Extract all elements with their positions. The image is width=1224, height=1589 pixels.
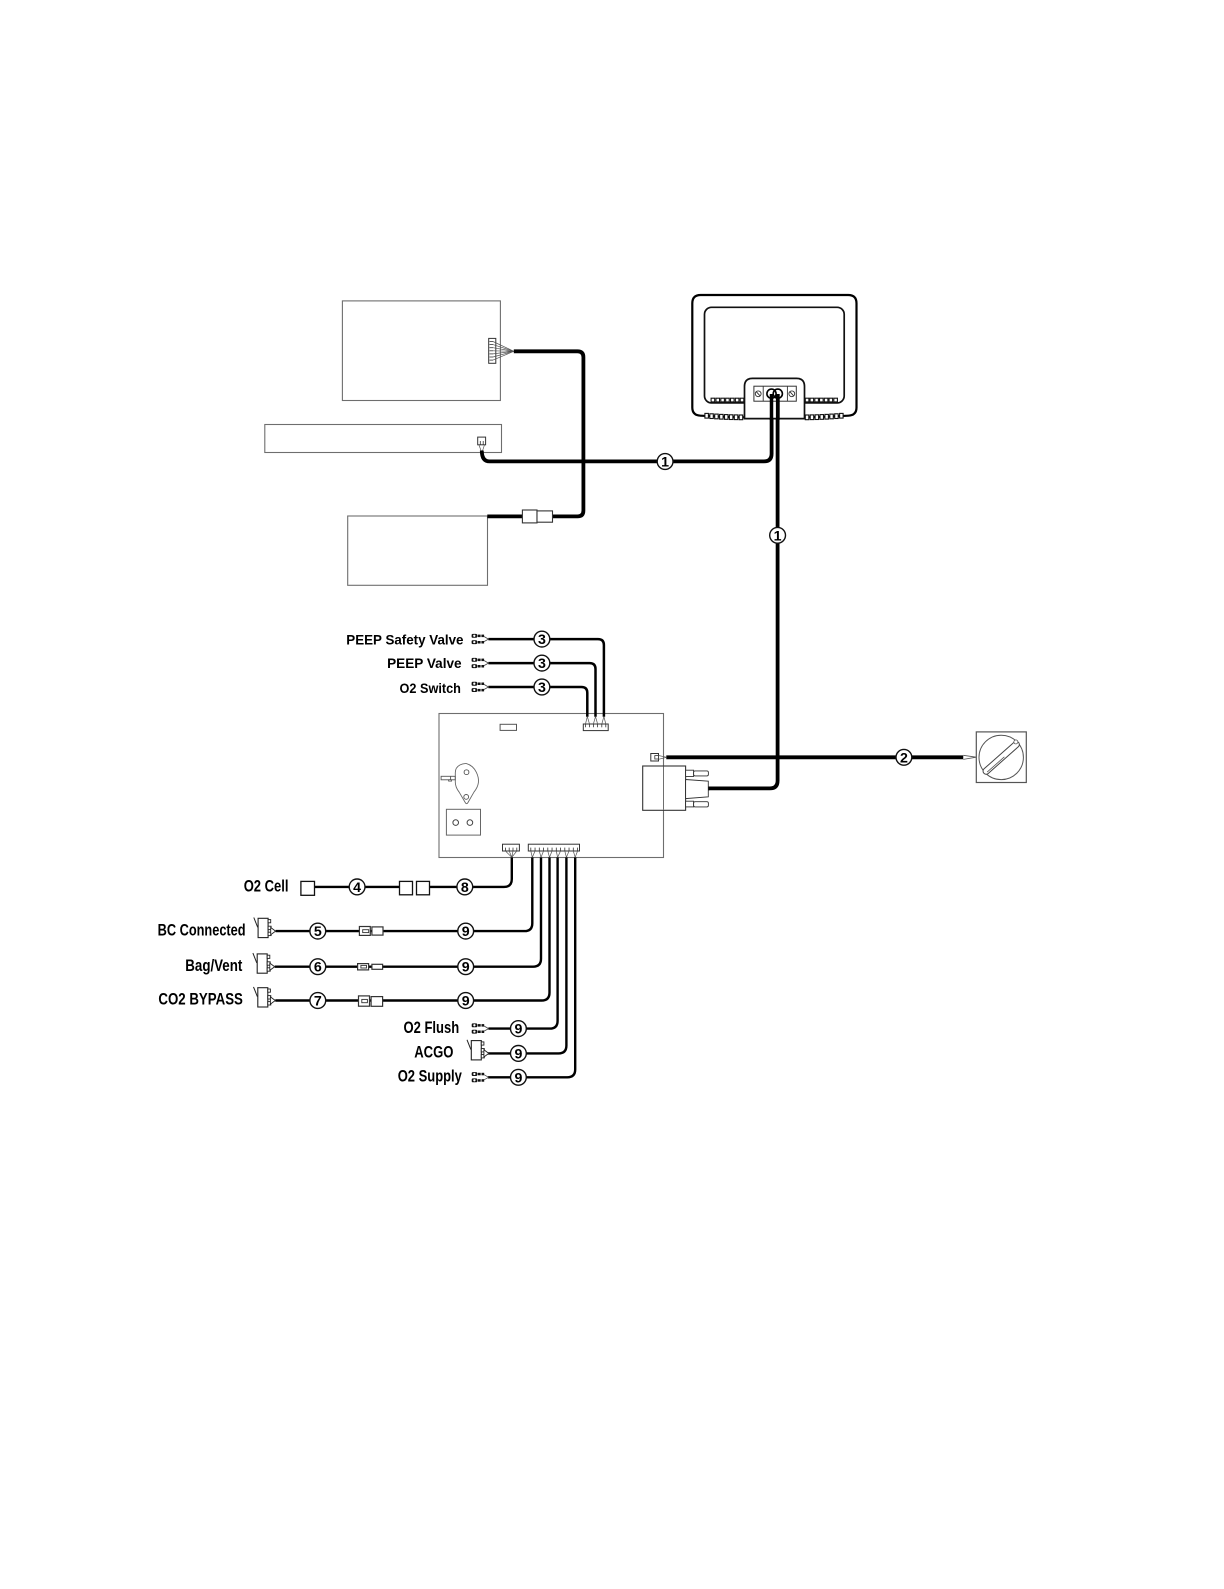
screw left — [755, 391, 761, 397]
O2 Cell square 2 — [400, 881, 413, 894]
D-sub connector on board right edge — [643, 766, 686, 810]
wire: lower module to inline connector — [487, 515, 523, 519]
svg-text:O2 Cell: O2 Cell — [244, 878, 289, 896]
socket part with two holes on board — [446, 809, 480, 835]
rotary switch enclosure — [976, 732, 1026, 783]
monitor cable sockets — [767, 389, 776, 398]
small rectangle part on board — [500, 724, 516, 730]
svg-text:3: 3 — [538, 680, 546, 696]
connector plate inside housing — [754, 386, 796, 401]
monitor vent slots row A left — [711, 398, 744, 402]
spade icon: O2 Flush — [472, 1023, 489, 1033]
label circle 1 (vertical cable) — [770, 527, 786, 543]
D-sub bottom pin — [686, 801, 694, 807]
svg-text:O2 Supply: O2 Supply — [398, 1068, 462, 1086]
wire: O2 Flush row — [488, 857, 557, 1028]
spade icon: PEEP Valve — [472, 658, 489, 668]
label circle 7 — [310, 993, 326, 1009]
board top connector (valve harness header) — [583, 717, 608, 731]
svg-text:1: 1 — [774, 528, 782, 544]
svg-text:CO2 BYPASS: CO2 BYPASS — [158, 991, 243, 1009]
wire: main board to rotary switch (label 2) — [666, 755, 963, 759]
board right edge small connector to rotary cable — [651, 754, 659, 762]
box: keyboard strip module — [265, 425, 502, 453]
svg-text:7: 7 — [314, 994, 322, 1010]
svg-text:9: 9 — [462, 924, 470, 940]
wire stubs from sockets through housing — [770, 394, 774, 420]
svg-text:1: 1 — [661, 455, 669, 471]
wire: BC Connected row — [276, 857, 533, 931]
screw right — [789, 391, 795, 397]
wire: keyboard strip to monitor left socket (label 1) — [482, 394, 772, 462]
board bottom-left connector (O2 cell header) — [503, 844, 520, 857]
label circle 5 — [310, 923, 326, 939]
label circle 3 (PEEP Valve) — [534, 655, 550, 671]
label circle 9 (ACGO) — [511, 1046, 527, 1062]
svg-text:O2 Flush: O2 Flush — [404, 1019, 460, 1037]
inline connector row Bag/Vent — [358, 964, 369, 970]
wire: O2 Cell row segment 2 to board bottom-left connector — [430, 857, 512, 887]
numbered callout circles — [310, 454, 912, 1086]
label circle 4 — [349, 879, 365, 895]
microswitch icon: CO2 BYPASS — [253, 987, 275, 1007]
svg-text:3: 3 — [538, 656, 546, 672]
microswitch icon: Bag/Vent — [253, 953, 275, 973]
label circle 3 (PEEP Safety Valve) — [534, 631, 550, 647]
svg-text:9: 9 — [462, 960, 470, 976]
box: main board — [439, 714, 664, 858]
svg-text:4: 4 — [353, 880, 361, 896]
svg-text:3: 3 — [538, 632, 546, 648]
monitor rear housing — [692, 295, 856, 418]
rotary switch knob — [979, 735, 1023, 779]
svg-text:BC Connected: BC Connected — [158, 921, 246, 939]
microswitch icon: BC Connected — [254, 918, 276, 938]
label circle 9 (CO2) — [458, 993, 474, 1009]
cable end abutting D-sub step — [708, 787, 709, 791]
svg-text:9: 9 — [514, 1046, 522, 1062]
svg-text:2: 2 — [900, 750, 908, 766]
O2 Cell square 3 — [417, 881, 430, 894]
svg-text:5: 5 — [314, 924, 322, 940]
wire: PEEP Valve to board top connector — [488, 663, 595, 717]
svg-text:O2 Switch: O2 Switch — [400, 680, 461, 696]
label circle 1 (horizontal cable) — [657, 454, 673, 470]
label circle 2 — [896, 749, 912, 765]
monitor vent slots row A right — [805, 398, 837, 402]
board bottom-right connector (signal header) — [528, 844, 579, 857]
svg-text:PEEP Safety Valve: PEEP Safety Valve — [346, 631, 463, 647]
svg-text:PEEP Valve: PEEP Valve — [387, 655, 462, 671]
connector J2 on keyboard strip — [478, 437, 486, 452]
label circle 8 — [457, 879, 473, 895]
wire: CO2 BYPASS row — [275, 857, 549, 1000]
label circle 6 — [310, 959, 326, 975]
svg-text:9: 9 — [514, 1022, 522, 1038]
box: lower module — [348, 516, 488, 585]
spade icon: PEEP Safety Valve — [472, 634, 489, 644]
label circle 9 (BC) — [458, 923, 474, 939]
monitor inner panel — [705, 307, 845, 403]
svg-text:9: 9 — [514, 1070, 522, 1086]
monitor vent slots row B right — [805, 413, 843, 419]
monitor cable connector housing — [745, 378, 805, 418]
wire: cable display unit to inline connector — [514, 351, 584, 516]
label circle 9 (O2 Supply) — [511, 1069, 527, 1085]
microswitch icon: ACGO — [467, 1040, 489, 1060]
inline connector row BC Connected — [359, 927, 370, 936]
monitor vent slots row B left — [705, 413, 743, 419]
board right edge visible through D-sub — [663, 767, 665, 810]
wire: ACGO row — [488, 857, 567, 1053]
O2 Cell square 1 — [301, 881, 315, 895]
connector J1 on display unit — [489, 338, 514, 363]
svg-text:8: 8 — [461, 880, 469, 896]
wire: PEEP Safety Valve to board top connector — [488, 639, 604, 717]
D-sub top pin — [686, 770, 694, 776]
spade icon: O2 Supply — [472, 1072, 489, 1082]
label circle 9 (O2 Flush) — [511, 1021, 527, 1037]
spade icon: O2 Switch — [472, 682, 489, 692]
inline connector on thick cable — [522, 510, 537, 523]
label circle 3 (O2 Switch) — [534, 679, 550, 695]
transistor lead — [441, 776, 455, 780]
svg-text:6: 6 — [314, 960, 322, 976]
wire taper into rotary switch — [963, 755, 976, 759]
text labels — [158, 631, 464, 1085]
wire: monitor right socket to D-sub on main board (label 1) — [708, 394, 778, 789]
svg-text:9: 9 — [462, 994, 470, 1010]
transistor TO-3 package on board — [455, 764, 478, 804]
svg-text:Bag/Vent: Bag/Vent — [185, 957, 242, 975]
wire: O2 Switch to board top connector — [488, 687, 587, 717]
wire: Bag/Vent row — [275, 857, 541, 966]
svg-text:ACGO: ACGO — [414, 1044, 453, 1062]
inline connector row CO2 BYPASS — [359, 996, 370, 1006]
wire: O2 Supply row — [488, 857, 575, 1077]
wire: O2 Cell row segment 1 — [315, 886, 400, 888]
label circle 9 (BagVent) — [458, 959, 474, 975]
box: display unit module — [342, 301, 500, 401]
